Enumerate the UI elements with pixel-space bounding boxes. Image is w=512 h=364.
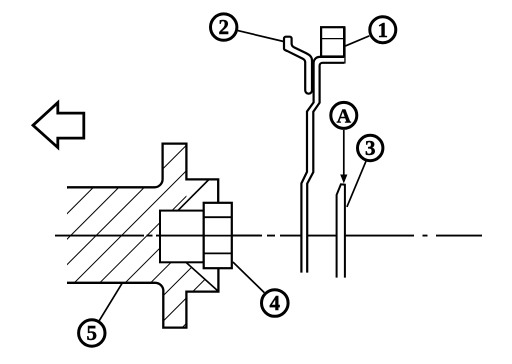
part 3 strip bbox=[337, 184, 345, 277]
callout 2 bbox=[211, 14, 237, 40]
arrow A pointer bbox=[340, 130, 347, 184]
callout 5 bbox=[79, 320, 105, 346]
nut 4 thread lines bbox=[204, 217, 232, 253]
cone edge upper bbox=[178, 180, 209, 211]
leader 1 bbox=[345, 36, 370, 46]
part 5 flange outline bbox=[67, 144, 218, 328]
svg-text:2: 2 bbox=[218, 15, 229, 39]
callout A bbox=[331, 102, 357, 128]
centerline bbox=[55, 235, 482, 237]
svg-text:A: A bbox=[337, 106, 352, 128]
cone edge lower bbox=[186, 263, 218, 292]
leader 4 bbox=[233, 262, 264, 293]
callout 3 bbox=[358, 135, 383, 160]
part 1 long strip bbox=[301, 57, 344, 273]
part 1 rectangle bbox=[321, 27, 344, 63]
callout 4 bbox=[262, 290, 289, 317]
part 5 shaft and flange hatched section bbox=[67, 144, 218, 328]
direction arrow bbox=[33, 103, 84, 148]
svg-text:5: 5 bbox=[87, 321, 98, 345]
svg-text:3: 3 bbox=[365, 136, 376, 160]
leader 2 bbox=[238, 31, 284, 42]
nut 4 bbox=[204, 203, 232, 268]
centerline through hub bbox=[160, 235, 260, 237]
part 2 clip bbox=[284, 37, 312, 94]
hub bbox=[160, 211, 204, 263]
svg-text:4: 4 bbox=[270, 291, 281, 315]
svg-text:1: 1 bbox=[378, 18, 389, 42]
callout 1 bbox=[370, 17, 396, 43]
leader 5 bbox=[99, 283, 122, 321]
leader 3 bbox=[347, 161, 366, 207]
